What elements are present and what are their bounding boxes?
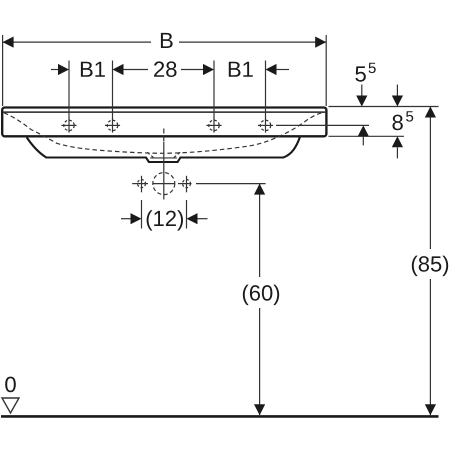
extension line hole 2 — [112, 61, 114, 120]
fixing hole left (dashed circle) — [138, 180, 146, 188]
washbasin bowl outline — [27, 137, 300, 162]
fixing hole left centre mark — [141, 176, 143, 193]
dimension B1 right label — [229, 62, 253, 77]
dimension 60 arrow up — [254, 184, 265, 195]
leader line hole centre (right) — [276, 124, 369, 126]
dimension 8-5 arrow (down, outer) — [392, 96, 403, 107]
drain hole (dashed circle) — [153, 173, 175, 195]
overflow hidden outline left (dashed) — [147, 152, 153, 157]
tap hole 2 — [105, 118, 120, 132]
dimension 85 label — [412, 256, 448, 277]
drain centre leader line — [132, 183, 265, 185]
dimension B1 right: outside arrow — [266, 64, 277, 75]
bowl hidden inner profile (dashed) — [4, 112, 326, 153]
dimension 85 arrow down — [425, 404, 436, 415]
dimension 12 extension line left — [141, 200, 143, 229]
dimension 8-5 arrow (up, at bottom edge line) — [392, 136, 403, 147]
dimension 12 label — [147, 210, 183, 231]
dimension 12 extension line right — [186, 200, 188, 229]
dimension 28 line — [124, 69, 204, 71]
dimension 28 arrow left — [113, 64, 124, 75]
dimension 60 label — [243, 285, 279, 306]
dimension 28 label — [154, 61, 176, 77]
dimension 12 arrow right — [187, 213, 198, 224]
dimension B1 left: outside arrow — [51, 69, 59, 71]
dimension B label — [161, 33, 173, 48]
extension line hole 3 — [213, 61, 215, 120]
washbasin body outline — [2, 108, 326, 137]
dimension 60 arrow down — [254, 404, 265, 415]
dimension 5-5 arrow (down, at hole pair) — [356, 96, 367, 107]
dimension B line — [3, 41, 327, 43]
leader line bottom edge (right) — [329, 135, 405, 137]
dimension 8-5 label — [393, 111, 414, 130]
centre line of basin (dashed part) — [163, 129, 165, 142]
centre line of basin (solid part through drain) — [163, 142, 165, 200]
dimension 28 arrow right — [203, 64, 214, 75]
extension line hole 1 — [68, 61, 70, 120]
datum level 0 label — [5, 377, 16, 393]
floor line — [1, 415, 439, 418]
dimension 60 line — [259, 184, 261, 415]
dimension B extension line left — [2, 35, 4, 106]
dimension 85 line — [429, 107, 431, 416]
dimension B extension line right — [325, 35, 327, 106]
fixing hole right centre mark — [186, 176, 188, 193]
dimension 12 arrow left — [121, 218, 131, 220]
dimension 5-5 arrow (up, at hole centre line) — [358, 125, 369, 136]
tap hole 3 — [206, 118, 221, 132]
dimension 85 arrow up — [425, 107, 436, 118]
dimension 5-5 label — [355, 63, 375, 82]
leader line top edge (right) — [329, 106, 439, 108]
datum level triangle — [2, 398, 19, 413]
washbasin rim inner line — [3, 111, 325, 113]
dimension B1 left label — [81, 62, 105, 77]
extension line hole 4 — [265, 61, 267, 120]
dimension B arrow right — [315, 37, 326, 48]
overflow hidden outline right (dashed) — [174, 152, 180, 157]
tap hole 1 — [61, 118, 76, 132]
fixing hole right (dashed circle) — [183, 180, 191, 188]
tap hole 4 — [258, 118, 273, 132]
dimension B arrow left — [3, 37, 14, 48]
bowl bottom back edge seen through notch — [150, 157, 177, 159]
